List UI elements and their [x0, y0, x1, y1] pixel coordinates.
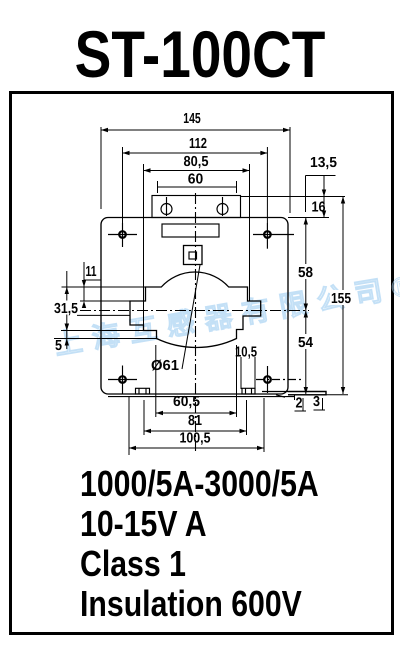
vertical centerline	[195, 193, 197, 452]
dim 81	[144, 429, 247, 433]
nameplate	[162, 224, 219, 237]
svg-text:13,5: 13,5	[310, 155, 337, 171]
svg-text:Ø61: Ø61	[151, 358, 179, 374]
screw left	[161, 204, 172, 215]
CT body outline	[101, 218, 288, 395]
title ST-100CT	[32, 17, 368, 92]
center terminal box	[184, 246, 203, 265]
svg-text:81: 81	[188, 413, 202, 429]
svg-text:155: 155	[331, 291, 351, 307]
DIN clip bar	[288, 392, 326, 395]
leader line for Ø61	[182, 265, 200, 369]
svg-text:上海互感器有限公司®: 上海互感器有限公司®	[52, 268, 400, 360]
svg-text:112: 112	[189, 136, 207, 152]
dim 54	[304, 311, 308, 395]
outer border frame	[11, 93, 393, 634]
dim 80,5	[144, 164, 250, 331]
dimension graphics	[54, 127, 348, 455]
svg-text:60,5: 60,5	[173, 394, 200, 410]
hole top-left	[108, 223, 137, 247]
foot left	[136, 388, 150, 394]
dim 100,5	[129, 446, 264, 450]
dim 145	[101, 127, 290, 213]
watermark	[52, 268, 400, 360]
dim 2 bracket	[295, 395, 307, 411]
spec text Insulation 600V	[80, 583, 302, 625]
dim 31,5	[65, 271, 130, 331]
svg-text:31,5: 31,5	[54, 301, 78, 317]
terminal block	[152, 196, 241, 218]
dim 60,5	[156, 411, 237, 415]
dim 58	[304, 218, 308, 311]
body top extension line	[288, 217, 329, 219]
svg-text:11: 11	[86, 264, 97, 280]
label 31,5	[53, 301, 79, 318]
hole top-right	[253, 223, 294, 249]
spec text 10-15V A	[80, 503, 207, 545]
terminal top extension line	[241, 196, 346, 198]
clip bottom extension	[288, 394, 348, 396]
label 54	[297, 334, 314, 351]
foot right	[242, 388, 255, 394]
spec text Class 1	[80, 543, 186, 585]
bottom witness lines	[128, 397, 130, 455]
bore window	[130, 272, 261, 347]
svg-text:3: 3	[313, 394, 320, 410]
svg-text:145: 145	[183, 111, 201, 127]
dim 10,5 witness lines	[241, 357, 255, 389]
svg-text:60: 60	[188, 172, 204, 188]
dim 155	[341, 197, 345, 395]
dim 112	[123, 147, 268, 223]
dimension texts	[53, 111, 352, 447]
dim 11 left	[82, 262, 101, 308]
bore step extension lines left	[62, 286, 146, 288]
hole bottom-right	[256, 366, 304, 393]
label 155	[330, 290, 352, 307]
label 58	[297, 264, 314, 281]
svg-text:2: 2	[296, 396, 303, 412]
reference line screw top (13,5)	[306, 176, 336, 213]
svg-text:10,5: 10,5	[235, 345, 257, 361]
screw right	[217, 204, 228, 215]
dim 60 top	[158, 181, 237, 193]
dim 16	[322, 197, 326, 218]
dim 3 bracket	[314, 398, 326, 410]
svg-text:80,5: 80,5	[184, 154, 209, 170]
svg-text:100,5: 100,5	[180, 431, 211, 447]
svg-text:54: 54	[298, 335, 313, 351]
hole bottom-left	[108, 366, 137, 395]
spec text 1000/5A-3000/5A	[80, 463, 319, 505]
svg-text:58: 58	[298, 265, 313, 281]
dim 5	[65, 324, 69, 350]
svg-text:16: 16	[312, 200, 326, 216]
horizontal centerline	[80, 310, 309, 312]
svg-text:5: 5	[55, 338, 62, 354]
